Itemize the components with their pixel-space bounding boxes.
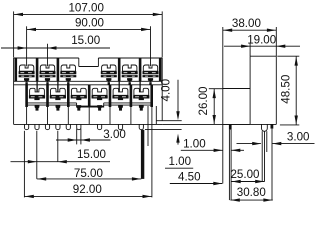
svg-text:19.00: 19.00: [247, 34, 276, 47]
svg-text:15.00: 15.00: [71, 34, 100, 47]
svg-text:4.00: 4.00: [160, 79, 173, 102]
svg-text:48.50: 48.50: [280, 75, 293, 104]
svg-text:25.00: 25.00: [230, 168, 259, 181]
svg-text:38.00: 38.00: [232, 17, 261, 30]
svg-text:75.00: 75.00: [74, 167, 103, 180]
svg-text:3.00: 3.00: [103, 128, 126, 141]
svg-text:30.80: 30.80: [237, 186, 266, 199]
svg-text:4.50: 4.50: [178, 170, 201, 183]
svg-text:1.00: 1.00: [183, 138, 206, 151]
svg-text:107.00: 107.00: [68, 2, 103, 15]
svg-text:90.00: 90.00: [75, 16, 104, 29]
svg-text:92.00: 92.00: [73, 183, 102, 196]
svg-text:15.00: 15.00: [77, 148, 106, 161]
svg-text:3.00: 3.00: [287, 130, 310, 143]
svg-text:26.00: 26.00: [197, 86, 210, 115]
svg-text:1.00: 1.00: [169, 155, 192, 168]
